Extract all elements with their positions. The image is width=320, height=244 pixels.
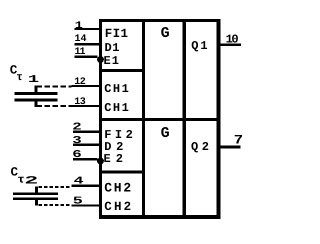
svg-text:1: 1: [75, 21, 83, 32]
capacitor CT1 top plate: [15, 92, 58, 95]
capacitor CT1 bottom plate: [15, 99, 58, 102]
pin 5 label: [73, 196, 83, 208]
capacitor CT2 bottom plate: [13, 198, 58, 201]
svg-text:D1: D1: [105, 41, 120, 55]
svg-text:E1: E1: [104, 54, 120, 68]
pin 13 wire: [72, 105, 101, 107]
pin 2 label: [72, 122, 81, 134]
negation bubble E1: [97, 56, 104, 63]
divider between E2 row and CH2 box: [99, 171, 145, 174]
svg-text:CH2: CH2: [104, 200, 131, 214]
svg-text:τ: τ: [16, 72, 23, 84]
svg-text:1: 1: [28, 74, 39, 86]
pin 6 label: [72, 149, 81, 161]
divider between E1 row and CH1 box: [99, 69, 145, 72]
svg-text:G: G: [161, 125, 170, 142]
pin 10 wire: [221, 44, 242, 47]
pin 5 wire: [72, 205, 101, 207]
capacitor CT1 bottom stub: [35, 102, 38, 108]
pin 13 dashed wire to CT1: [37, 105, 72, 107]
svg-text:CH1: CH1: [104, 82, 129, 96]
capacitor CT1 top stub: [35, 86, 38, 93]
pin 7 wire: [221, 146, 241, 149]
svg-text:2: 2: [24, 176, 38, 188]
pin 12 dashed wire to CT1: [37, 85, 72, 87]
pin 4 dashed wire to CT2: [39, 186, 72, 188]
negation bubble E2: [97, 158, 104, 165]
pin 2 wire: [73, 131, 100, 134]
pin 12 wire: [72, 85, 101, 87]
pin 1 label: [75, 21, 83, 32]
pin 14 wire: [75, 43, 101, 46]
pin 7 label: [234, 133, 243, 148]
pin 5 dashed wire to CT2: [39, 204, 72, 206]
divider between G column and Q column: [183, 19, 186, 219]
IC outline top edge: [99, 19, 221, 22]
IC outline right edge: [217, 19, 221, 219]
mid divider between channel 1 and channel 2: [99, 118, 221, 121]
capacitor CT2 top stub: [35, 187, 38, 194]
pin 11 wire: [75, 56, 98, 59]
IC outline bottom edge: [99, 215, 221, 219]
pin 4 label: [74, 176, 84, 188]
pin 6 wire: [73, 158, 98, 161]
capacitor CT2 bottom stub: [35, 200, 38, 206]
pin 3 wire: [73, 144, 100, 147]
svg-text:Q1: Q1: [191, 39, 207, 53]
svg-text:7: 7: [234, 133, 243, 148]
pin 4 wire: [72, 185, 101, 188]
IC outline left edge: [99, 19, 102, 219]
svg-text:G: G: [161, 25, 170, 42]
svg-text:FI1: FI1: [105, 27, 128, 41]
svg-text:CH1: CH1: [104, 101, 129, 115]
svg-text:CH2: CH2: [104, 181, 131, 196]
pin 3 label: [72, 135, 81, 147]
capacitor CT2 top plate: [13, 193, 58, 196]
pin 1 wire: [75, 28, 101, 30]
divider between input column and G column: [142, 19, 145, 219]
